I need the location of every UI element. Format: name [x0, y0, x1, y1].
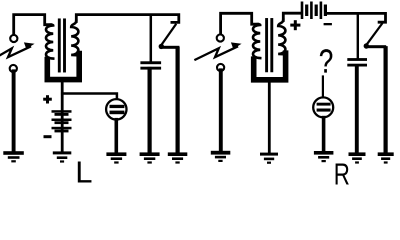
wire: switch S1 down to ground G5 [176, 49, 180, 152]
switch S1 foot bar [160, 46, 180, 49]
wire: transformer T2 base down to ground G7 [268, 82, 271, 152]
spark gap ball (bottom) [10, 65, 17, 72]
svg-text:R: R [334, 157, 350, 191]
ground G6 [211, 151, 231, 162]
transformer T2 secondary coil [278, 20, 285, 55]
wire: capacitor C2 feed from rail [357, 14, 359, 58]
switch S1 pivot dot [159, 44, 164, 49]
wire: rail from secondary up to battery B2 [283, 13, 301, 20]
battery B2 (3 cells, horizontal) [301, 2, 327, 20]
transformer T1 core (two lines) [58, 20, 61, 71]
switch S1 lever [161, 25, 176, 46]
transformer T1 secondary coil (right winding) [71, 21, 78, 56]
ground G10 (switch) [378, 152, 394, 163]
battery B1 plus label [43, 95, 52, 103]
meter M1 (circle with two bars) [106, 99, 126, 119]
wire: rail from battery to switch S2 [327, 13, 386, 22]
wire: thick lead from bottom ball down to ground G6 [219, 70, 223, 151]
transformer T2 core (two lines) [265, 20, 268, 71]
wire: switch S2 down to ground G10 [384, 48, 388, 151]
capacitor C1 [140, 61, 161, 69]
switch S2 lever [366, 24, 382, 45]
spark gap ball (top, right circuit) [217, 34, 224, 41]
ground G8 (meter) [314, 151, 334, 162]
wire: meter M2 down to ground G8 [322, 118, 326, 151]
wire: battery tap to meter M1 [62, 94, 117, 98]
wire: capacitor C1 feed from rail [150, 16, 153, 62]
switch S2 foot bar [365, 45, 386, 48]
ground G5 (switch) [168, 152, 188, 163]
battery B2 minus label [324, 23, 332, 25]
ground G3 (meter) [106, 152, 126, 163]
capacitor C2 [347, 58, 367, 66]
transformer T2 thick frame (U base) [254, 53, 286, 80]
spark arrow (right circuit) [195, 42, 241, 59]
transformer T2 primary coil [253, 24, 260, 58]
transformer T1 thick frame (U base) [47, 54, 79, 80]
wire: capacitor C1 down to ground G4 [148, 69, 152, 152]
battery B2 plus label [290, 20, 300, 30]
wire: left antenna lead from top ball up to top rail, jog into primary [14, 15, 51, 34]
ground G7 (transformer base) [260, 153, 278, 164]
ground G2 (battery) [53, 151, 72, 162]
ground G1 [3, 151, 24, 162]
wire: right antenna lead from top ball to rail, jog into primary [221, 13, 258, 33]
spark gap ball (top) [10, 35, 17, 42]
wire: transformer base down to battery [61, 82, 64, 151]
spark gap ball (bottom, right circuit) [217, 64, 224, 71]
svg-text:L: L [75, 155, 92, 190]
spark arrow (lightning bolt through gap) [0, 42, 35, 61]
transformer T1 primary coil (left winding) [46, 25, 53, 59]
wire: capacitor C2 down to ground G9 [355, 67, 359, 153]
meter M2 (circle with two bars) [313, 97, 333, 117]
battery B1 minus label [44, 135, 52, 138]
battery B1 (3 cells, vertical stack) [52, 110, 72, 132]
switch S2 pivot dot [364, 43, 369, 48]
wire: from question mark down to meter M2 [322, 77, 324, 98]
svg-text:?: ? [319, 43, 333, 80]
ground G9 (capacitor) [349, 152, 366, 163]
wire: thick lead from bottom ball down to ground G1 [12, 71, 16, 151]
wire: top rail from secondary up and right to switch S1 [76, 15, 179, 23]
wire: meter M1 down to ground G3 [115, 120, 119, 152]
ground G4 (capacitor) [140, 152, 160, 163]
